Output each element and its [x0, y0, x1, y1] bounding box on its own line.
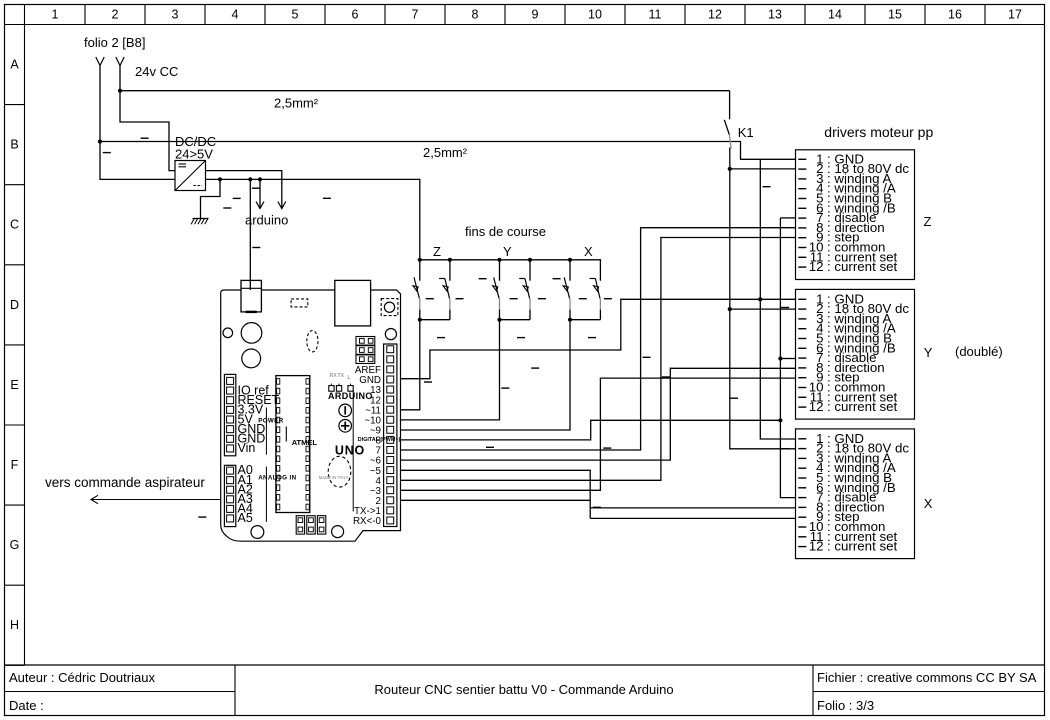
svg-text:15: 15: [888, 8, 902, 22]
svg-text:fins de course: fins de course: [465, 224, 546, 239]
svg-text:A5: A5: [238, 511, 253, 525]
svg-text:4: 4: [232, 8, 239, 22]
svg-text:Fichier : creative commons CC: Fichier : creative commons CC BY SA: [817, 670, 1037, 685]
svg-text:RX<-0: RX<-0: [353, 516, 382, 527]
svg-text:10: 10: [588, 8, 602, 22]
svg-text:D: D: [10, 298, 19, 312]
svg-text:MADE IN ITALY: MADE IN ITALY: [319, 475, 349, 480]
svg-text:Auteur : Cédric Doutriaux: Auteur : Cédric Doutriaux: [9, 670, 155, 685]
svg-text:1: 1: [52, 8, 59, 22]
svg-text:12: 12: [708, 8, 722, 22]
svg-text:17: 17: [1008, 8, 1022, 22]
svg-text:ANALOG IN: ANALOG IN: [258, 474, 296, 481]
svg-text:Z: Z: [433, 244, 441, 259]
svg-text:K1: K1: [738, 125, 754, 140]
svg-text:X: X: [584, 244, 593, 259]
svg-text:Date :: Date :: [9, 698, 44, 713]
svg-text:Routeur CNC sentier battu V0 -: Routeur CNC sentier battu V0 - Commande …: [374, 682, 673, 697]
svg-text:arduino: arduino: [245, 213, 288, 228]
svg-text:2: 2: [112, 8, 119, 22]
svg-text:13: 13: [768, 8, 782, 22]
svg-text:11: 11: [649, 8, 662, 22]
svg-text:9: 9: [532, 8, 539, 22]
svg-text:: current set: : current set: [827, 259, 898, 274]
svg-text:: current set: : current set: [827, 539, 898, 554]
svg-text:TX: TX: [338, 373, 345, 379]
svg-text:12: 12: [809, 259, 824, 274]
svg-text:vers commande aspirateur: vers commande aspirateur: [45, 475, 205, 490]
svg-text:6: 6: [352, 8, 359, 22]
svg-text:A: A: [10, 58, 19, 72]
svg-text:POWER: POWER: [258, 417, 284, 424]
svg-text:2,5mm²: 2,5mm²: [274, 96, 319, 111]
svg-text:7: 7: [412, 8, 419, 22]
svg-text:2,5mm²: 2,5mm²: [423, 145, 468, 160]
svg-text:: current set: : current set: [827, 399, 898, 414]
svg-text:Y: Y: [503, 244, 512, 259]
svg-text:UNO: UNO: [335, 444, 365, 458]
svg-text:ARDUINO: ARDUINO: [328, 391, 373, 401]
svg-text:ATMEL: ATMEL: [292, 438, 318, 447]
svg-text:14: 14: [828, 8, 842, 22]
svg-text:12: 12: [809, 539, 824, 554]
svg-text:8: 8: [472, 8, 479, 22]
svg-text:16: 16: [948, 8, 962, 22]
svg-text:12: 12: [809, 399, 824, 414]
svg-text:H: H: [10, 618, 19, 632]
svg-text:RX: RX: [330, 373, 338, 379]
svg-text:Folio : 3/3: Folio : 3/3: [817, 698, 874, 713]
svg-text:3: 3: [172, 8, 179, 22]
svg-text:24v CC: 24v CC: [135, 64, 178, 79]
svg-text:F: F: [11, 458, 19, 472]
svg-text:24>5V: 24>5V: [175, 147, 213, 162]
svg-text:(doublé): (doublé): [955, 344, 1003, 359]
svg-text:Vin: Vin: [238, 441, 256, 455]
svg-text:G: G: [10, 538, 20, 552]
svg-text:E: E: [10, 378, 18, 392]
svg-text:X: X: [924, 496, 933, 511]
svg-text:C: C: [10, 218, 19, 232]
svg-text:Y: Y: [924, 345, 933, 360]
svg-text:drivers moteur pp: drivers moteur pp: [824, 124, 933, 140]
svg-text:Z: Z: [924, 214, 932, 229]
svg-text:B: B: [10, 138, 18, 152]
svg-text:folio 2 [B8]: folio 2 [B8]: [84, 35, 145, 50]
svg-text:5: 5: [292, 8, 299, 22]
